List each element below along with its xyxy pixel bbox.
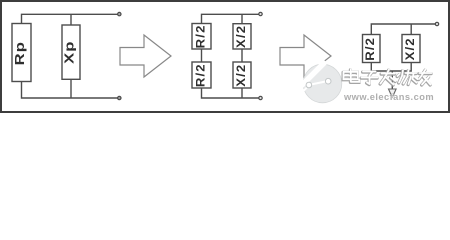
svg-text:Rp: Rp	[14, 41, 28, 65]
resistor Rp	[12, 24, 31, 82]
watermark logo	[300, 62, 342, 103]
svg-text:X/2: X/2	[235, 64, 248, 87]
arrow 1	[120, 35, 171, 77]
node terminal middle-top	[259, 12, 262, 15]
arrow 2	[280, 35, 331, 77]
wire left circuit bottom bus	[22, 79, 119, 98]
wire middle circuit top bus	[202, 14, 259, 23]
wire right circuit bottom bus	[371, 63, 411, 72]
ground arrow	[389, 89, 397, 98]
svg-text:X/2: X/2	[235, 25, 248, 48]
reactance X/2 top	[233, 24, 251, 49]
svg-text:X/2: X/2	[404, 37, 417, 60]
svg-text:Xp: Xp	[63, 41, 77, 64]
wire left circuit top bus	[22, 14, 119, 25]
svg-text:www.elecfans.com: www.elecfans.com	[343, 92, 434, 102]
wire middle circuit bottom bus	[202, 88, 259, 98]
reactance Xp	[62, 25, 80, 79]
wire right circuit top bus	[371, 24, 435, 35]
node terminal middle-bottom	[259, 96, 262, 99]
node terminal left-bottom	[118, 96, 121, 99]
resistor R/2 right	[363, 35, 381, 63]
svg-text:R/2: R/2	[194, 63, 207, 87]
svg-text:R/2: R/2	[364, 37, 377, 61]
resistor R/2 bottom	[192, 62, 211, 88]
node terminal right-top	[435, 22, 438, 25]
watermark text dianzifashaoyou	[343, 69, 431, 85]
reactance X/2 bottom	[233, 62, 251, 88]
wire ground stub	[391, 71, 393, 90]
resistor R/2 top	[192, 24, 211, 50]
svg-text:R/2: R/2	[194, 24, 207, 48]
node terminal left-top	[118, 12, 121, 15]
watermark url www.elecfans.com	[343, 92, 435, 103]
wire middle right branch middle link	[241, 49, 243, 62]
wire middle left branch middle link	[201, 49, 203, 62]
reactance X/2 right	[402, 35, 420, 63]
